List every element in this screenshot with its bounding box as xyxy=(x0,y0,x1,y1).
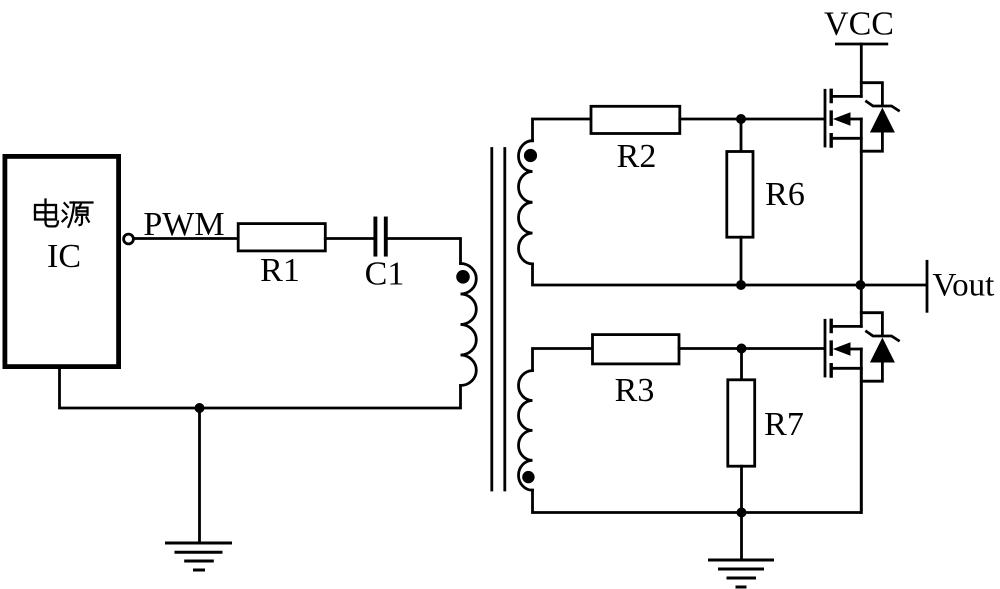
VCC rail bar xyxy=(836,43,886,46)
wire Q2 drain from Vout node xyxy=(860,285,863,326)
body diode D2 xyxy=(861,313,898,382)
transformer secondary winding bottom xyxy=(519,371,533,491)
transformer core xyxy=(490,149,493,491)
label 电 (dian) xyxy=(35,200,58,227)
secondary bottom phase dot xyxy=(522,471,534,483)
wire junction to R6 xyxy=(740,119,743,152)
wire R3 to gate Q2 xyxy=(679,347,824,350)
wire junction to Vout terminal xyxy=(861,284,926,287)
primary phase dot xyxy=(456,270,470,284)
transformer primary winding xyxy=(461,264,477,386)
svg-text:R7: R7 xyxy=(764,406,804,443)
svg-text:Vout: Vout xyxy=(933,268,995,304)
svg-text:R2: R2 xyxy=(617,138,657,175)
wire primary bottom to IC box xyxy=(60,369,461,408)
wire R7 to bottom rail xyxy=(740,466,743,512)
transistor Q1 (top MOSFET) xyxy=(825,90,861,285)
power IC box U1 xyxy=(5,156,119,366)
wire secondary-top bottom rail xyxy=(533,264,861,285)
transistor Q2 (bottom MOSFET) xyxy=(825,320,861,512)
wire junction to R7 xyxy=(740,349,743,380)
secondary top phase dot xyxy=(524,149,537,162)
wire junction to ground xyxy=(198,408,201,542)
wire R2 to gate Q1 xyxy=(680,118,824,121)
body diode D1 xyxy=(861,83,898,152)
resistor R3 xyxy=(593,335,680,364)
Vout terminal bar xyxy=(926,261,929,311)
wire R1 to C1 xyxy=(325,237,373,240)
resistor R6 xyxy=(727,152,753,238)
wire secondary-bottom to R3 xyxy=(533,349,593,371)
svg-text:C1: C1 xyxy=(365,256,405,293)
ground G1 xyxy=(167,543,231,570)
ground G2 xyxy=(710,560,773,587)
node R7 top junction xyxy=(737,344,747,354)
svg-text:IC: IC xyxy=(47,238,81,275)
node primary-ground junction xyxy=(195,403,205,413)
svg-text:R1: R1 xyxy=(260,252,300,289)
svg-text:VCC: VCC xyxy=(824,6,894,43)
wire junction to ground G2 xyxy=(740,513,743,559)
wire VCC to Q1 drain xyxy=(860,44,863,96)
wire secondary-top to R2 xyxy=(533,119,591,141)
PWM output terminal circle xyxy=(124,234,134,244)
wire PWM to R1 xyxy=(133,237,238,240)
svg-text:R6: R6 xyxy=(765,176,805,213)
svg-text:R3: R3 xyxy=(615,372,655,409)
label 源 (yuan) xyxy=(63,203,93,227)
node R6 top junction xyxy=(736,114,746,124)
wire R6 to bottom rail xyxy=(740,237,743,285)
resistor R1 xyxy=(238,224,325,251)
node R6 bottom junction xyxy=(736,280,746,290)
node R7 bottom junction xyxy=(737,508,747,518)
node Vout junction xyxy=(856,280,866,290)
resistor R7 xyxy=(728,380,755,466)
wire secondary-bottom bottom rail xyxy=(533,369,862,513)
transformer secondary winding top xyxy=(519,141,533,264)
resistor R2 xyxy=(591,106,680,133)
wire C1 to transformer primary xyxy=(388,239,461,264)
capacitor C1 xyxy=(373,219,377,255)
